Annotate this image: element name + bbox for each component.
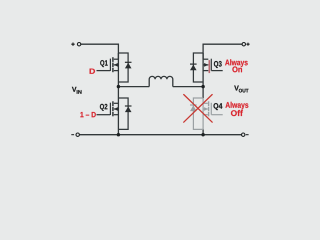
Q3 red conducting channel bar — [208, 60, 210, 73]
Q3 gate wire — [211, 70, 222, 72]
label V of VIN — [72, 87, 77, 92]
Q1 gate wire — [97, 70, 111, 72]
Q1 gate bar — [109, 59, 111, 71]
Q4 gate bar — [210, 103, 212, 115]
label IN subscript — [77, 90, 82, 94]
Q3 source stub — [203, 70, 208, 72]
Q2 body stub with arrow — [114, 108, 119, 110]
label Q2 — [100, 104, 108, 111]
Q4 drain stub — [203, 102, 208, 104]
Q3 body-diode loop wires — [193, 53, 203, 82]
transistor Q2 — [97, 101, 119, 116]
wire Q4 vertical bottom stub — [202, 129, 204, 134]
Q2 body diode D2 — [125, 106, 132, 112]
transistor Q3 — [203, 59, 223, 73]
label Q4 — [214, 103, 223, 110]
transistor Q4 (faded, always off) — [203, 98, 223, 129]
Q4 body diode D4 (faded) — [190, 105, 197, 111]
terminal: V_IN positive open circle — [77, 43, 80, 46]
label Q1 — [100, 60, 108, 67]
node A: switch node left junction dot — [117, 85, 120, 88]
node B: switch node right junction dot — [201, 85, 204, 88]
terminal: V_OUT plus sign — [246, 43, 249, 46]
terminal: V_IN negative open circle — [76, 133, 79, 136]
label On (red) — [232, 66, 242, 72]
Q4 drain-source vertical — [202, 98, 204, 129]
Q3 gate bar — [210, 59, 212, 71]
Q2 channel dashes — [112, 101, 114, 116]
wire top-right rail — [203, 44, 242, 59]
wire switch-node to inductor — [118, 86, 149, 88]
Q1 channel dashes — [112, 57, 114, 72]
Q3 drain stub — [203, 58, 208, 60]
Q1 body-diode loop wires — [118, 53, 128, 82]
red X cross-out over Q4 — [184, 95, 213, 123]
terminal: V_OUT minus sign — [246, 134, 249, 136]
wire Q4 vertical top stub — [202, 87, 204, 98]
Q1 body stub with arrow — [114, 64, 119, 66]
wire Q3 drain-source vertical — [202, 53, 204, 87]
label OUT subscript — [239, 89, 249, 93]
label Always (on, red) — [225, 59, 248, 67]
node C: bottom-left junction dot — [117, 133, 120, 136]
terminal: V_OUT negative open circle — [242, 133, 245, 136]
Q2 gate bar — [109, 103, 111, 115]
Q3 body diode D3 — [190, 64, 197, 70]
terminal: V_IN minus sign — [71, 134, 74, 136]
Q1 body diode D1 — [125, 62, 132, 68]
Q1 drain stub — [114, 58, 119, 60]
transistor Q1 — [97, 57, 119, 72]
wire Q1 drain-source vertical — [117, 53, 119, 87]
label D (red) — [90, 69, 95, 74]
label V of VOUT — [234, 86, 239, 91]
label Q3 — [214, 61, 222, 68]
Q4 body-diode loop wires (faded) — [193, 98, 203, 129]
wire Q2 vertical — [117, 87, 119, 135]
Q2 source stub — [114, 114, 119, 116]
Q4 body stub with arrow — [203, 108, 208, 110]
Q4 gate wire — [211, 114, 222, 116]
wire top-left rail — [81, 44, 119, 59]
node D: bottom-right junction dot — [201, 133, 204, 136]
Q4 channel dashes — [208, 101, 210, 116]
Q2 drain stub — [114, 102, 119, 104]
label Always (off, red) — [225, 102, 248, 110]
Q1 source stub — [114, 70, 119, 72]
wire bottom rail — [79, 134, 241, 136]
Q2 gate wire — [97, 114, 111, 116]
Q4 source stub — [203, 114, 208, 116]
terminal: V_IN plus sign — [71, 43, 74, 46]
Q2 body-diode loop wires — [118, 98, 128, 129]
Q3 body stub with arrow — [203, 64, 208, 66]
inductor L1 — [149, 76, 173, 86]
terminal: V_OUT positive open circle — [242, 43, 245, 46]
wire inductor to right switch-node — [173, 86, 203, 88]
label 1-D (red) — [80, 112, 95, 117]
label Off (red) — [231, 110, 243, 116]
